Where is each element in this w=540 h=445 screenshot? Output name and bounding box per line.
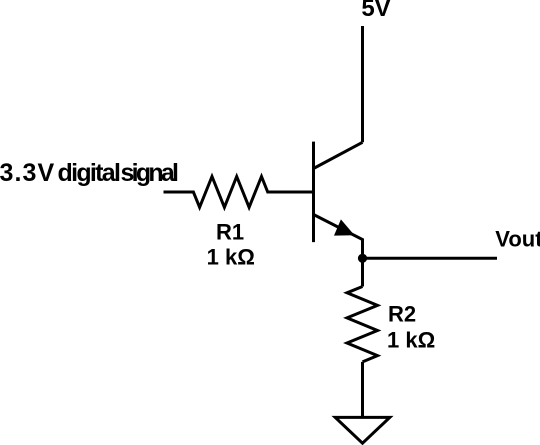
wire input to base with resistor R1: [164, 177, 314, 208]
transistor Q1 collector: [314, 142, 363, 168]
transistor Q1 emitter arrow: [336, 221, 353, 234]
transistor Q1 emitter: [314, 215, 363, 259]
svg-text:3.3Vdigitalsignal: 3.3Vdigitalsignal: [0, 159, 178, 187]
svg-text:1 kΩ: 1 kΩ: [387, 328, 435, 353]
wire R2 to ground: [361, 362, 364, 416]
svg-text:R2: R2: [388, 301, 416, 326]
node junction dot: [358, 254, 367, 263]
svg-text:R1: R1: [216, 220, 244, 245]
transistor Q1 base bar: [312, 142, 315, 243]
svg-text:Vout: Vout: [495, 227, 540, 252]
svg-text:5V: 5V: [361, 0, 390, 22]
svg-text:1 kΩ: 1 kΩ: [207, 245, 255, 270]
wire emitter to Vout: [363, 257, 498, 260]
wire emitter node down to R2: [361, 258, 364, 286]
ground: [335, 417, 390, 443]
resistor R2: [347, 287, 378, 362]
wire 5V supply to collector: [361, 26, 364, 142]
